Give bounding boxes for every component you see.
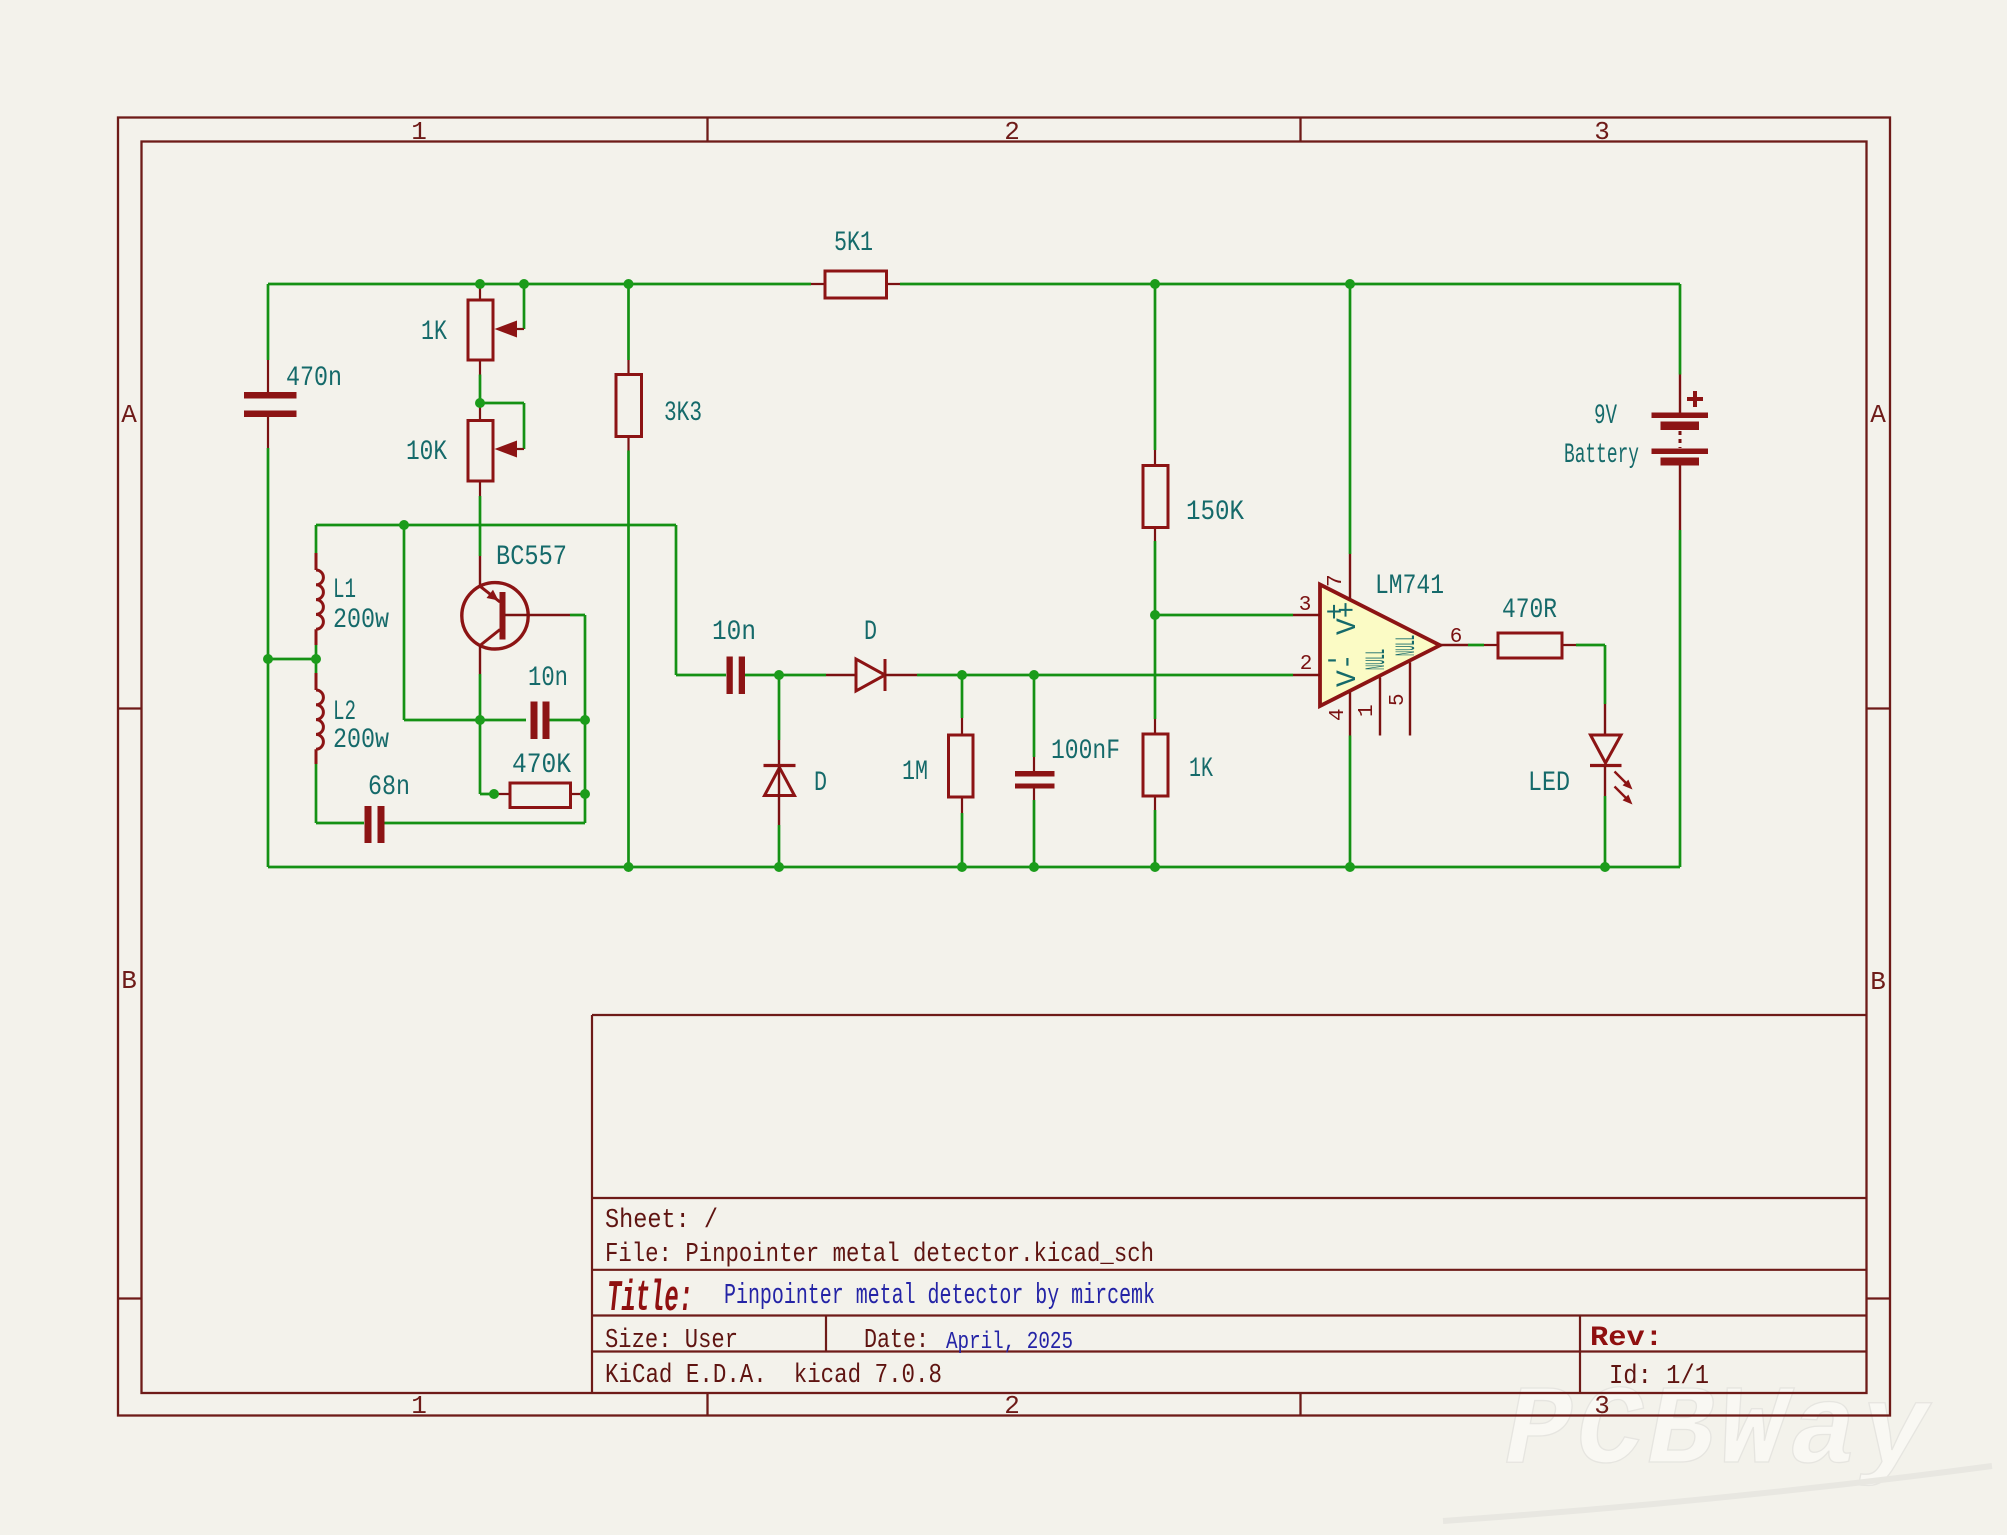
transistor Q1 BC557 (462, 542, 570, 674)
junction bottom rail / LED (1600, 862, 1610, 872)
svg-text:200w: 200w (333, 605, 389, 636)
junction top rail / 1K pot (475, 279, 485, 289)
svg-text:Id: 1/1: Id: 1/1 (1609, 1362, 1709, 1392)
junction bottom rail / 1M (957, 862, 967, 872)
svg-text:File: Pinpointer metal detecto: File: Pinpointer metal detector.kicad_sc… (605, 1240, 1154, 1270)
svg-text:470K: 470K (512, 750, 571, 781)
svg-text:A: A (121, 400, 137, 430)
wire battery column (1679, 284, 1682, 867)
wire 68n row (316, 822, 585, 825)
junction top rail / op-amp pin 7 (1345, 279, 1355, 289)
diode D shunt (764, 740, 828, 825)
title block texts (605, 1206, 1709, 1392)
svg-text:LED: LED (1528, 768, 1570, 799)
svg-text:1: 1 (411, 1391, 427, 1421)
svg-text:10n: 10n (528, 663, 568, 694)
wire top rail (268, 283, 1680, 286)
resistor 1M (902, 718, 973, 813)
svg-text:200w: 200w (333, 725, 389, 756)
svg-text:3K3: 3K3 (664, 398, 702, 429)
svg-text:2: 2 (1300, 653, 1313, 676)
inductor L1 (316, 525, 389, 659)
border zone labels (121, 117, 1886, 1421)
svg-text:Title:: Title: (607, 1274, 693, 1324)
svg-text:68n: 68n (368, 772, 410, 803)
junction collector column / 10n feedback (475, 715, 485, 725)
wire oscillator top (316, 524, 676, 527)
svg-text:1: 1 (1356, 704, 1379, 717)
wire emitter column (479, 496, 482, 556)
svg-text:D: D (864, 617, 877, 648)
op-amp U1 LM741 (1293, 554, 1468, 736)
resistor 150K (1143, 450, 1244, 541)
svg-text:BC557: BC557 (496, 542, 567, 573)
svg-text:3: 3 (1594, 1391, 1610, 1421)
svg-text:6: 6 (1450, 626, 1463, 649)
svg-text:April, 2025: April, 2025 (946, 1329, 1073, 1356)
inductor L2 (316, 659, 389, 823)
resistor 5K1 (811, 228, 900, 298)
svg-text:NULL: NULL (1392, 635, 1423, 656)
svg-text:A: A (1870, 400, 1886, 430)
svg-text:1M: 1M (902, 757, 928, 788)
wire base right column (570, 615, 585, 823)
junction top rail / 1K wiper (519, 279, 529, 289)
resistor 1K right (1143, 719, 1213, 810)
svg-text:B: B (1870, 967, 1886, 997)
junction collector column / 470K left (489, 789, 499, 799)
svg-text:10n: 10n (712, 617, 756, 648)
junction signal row / shunt diode (774, 670, 784, 680)
LED (1528, 704, 1633, 805)
resistor 470K (496, 750, 585, 808)
svg-text:1K: 1K (421, 317, 447, 348)
svg-text:Rev:: Rev: (1590, 1323, 1663, 1354)
capacitor 10n feedback (480, 663, 585, 739)
wire collector column (480, 674, 496, 794)
junction bottom rail / 100nF (1029, 862, 1039, 872)
svg-text:Pinpointer metal detector by m: Pinpointer metal detector by mircemk (724, 1279, 1155, 1312)
battery BT1 9V (1564, 375, 1708, 531)
junction left vertical / center tap (263, 654, 273, 664)
PCBWay watermark (1443, 1369, 1992, 1521)
wire 1M drop (961, 675, 964, 867)
svg-text:Size: User: Size: User (605, 1326, 738, 1356)
svg-text:7: 7 (1325, 574, 1348, 587)
svg-text:V+: V+ (1333, 601, 1364, 635)
wire pin4 (1349, 736, 1352, 868)
junction 1K-10K pots / 10K wiper (475, 398, 485, 408)
capacitor 100nF (1015, 736, 1120, 800)
svg-text:100nF: 100nF (1051, 736, 1120, 767)
svg-text:L2: L2 (333, 697, 356, 728)
wire LED bottom (1604, 796, 1607, 867)
svg-text:4: 4 (1327, 708, 1350, 721)
wire center tap (268, 658, 316, 661)
junction bottom rail / shunt diode (774, 862, 784, 872)
svg-text:Date:: Date: (864, 1326, 929, 1356)
svg-text:9V: 9V (1594, 401, 1617, 432)
junction base column / 470K right (580, 789, 590, 799)
wire base feedback column (404, 525, 480, 720)
junction top rail / 3K3 (624, 279, 634, 289)
svg-text:Sheet: /: Sheet: / (605, 1206, 718, 1236)
svg-text:L1: L1 (333, 575, 356, 606)
resistor 470R (1484, 595, 1576, 658)
svg-text:LM741: LM741 (1375, 571, 1444, 602)
capacitor 68n (365, 772, 411, 843)
junction 150K / op-amp pin 3 (1150, 610, 1160, 620)
junction bottom rail / 3K3 (624, 862, 634, 872)
wire left vertical (267, 284, 270, 867)
wire signal row (676, 525, 1293, 675)
svg-text:2: 2 (1004, 117, 1020, 147)
svg-text:2: 2 (1004, 1391, 1020, 1421)
junction L1-L2 center tap (311, 654, 321, 664)
wire bottom rail (268, 866, 1680, 869)
wire pin7 (1349, 284, 1352, 554)
svg-text:B: B (121, 966, 137, 996)
svg-text:1: 1 (411, 117, 427, 147)
potentiometer 1K (421, 286, 524, 403)
svg-text:5K1: 5K1 (834, 228, 873, 259)
diode D series (826, 617, 917, 691)
junction oscillator top wire / base column (399, 520, 409, 530)
resistor 3K3 (616, 284, 702, 867)
junction top rail / 150K (1150, 279, 1160, 289)
svg-text:3: 3 (1594, 117, 1610, 147)
title block frame (592, 1015, 1867, 1393)
sheet border frame (118, 118, 1890, 1416)
svg-text:470R: 470R (1502, 595, 1557, 626)
svg-text:1K: 1K (1189, 754, 1213, 785)
svg-text:NULL: NULL (1362, 649, 1393, 670)
wire output row (1468, 645, 1605, 704)
svg-text:150K: 150K (1186, 497, 1244, 528)
capacitor 10n coupling (712, 617, 756, 694)
junction signal row / 1M (957, 670, 967, 680)
svg-text:5: 5 (1387, 693, 1410, 706)
wire 100nF drop (1033, 675, 1036, 867)
svg-text:3: 3 (1299, 594, 1312, 617)
svg-text:10K: 10K (406, 437, 447, 468)
svg-text:Battery: Battery (1564, 440, 1639, 471)
wire 150K 1K column (1154, 284, 1157, 867)
svg-text:D: D (814, 768, 827, 799)
junction base column / 10n feedback (580, 715, 590, 725)
wire shunt diode drop (778, 675, 781, 867)
junction bottom rail / 1K (1150, 862, 1160, 872)
wire pin3 row (1155, 614, 1293, 617)
capacitor 470n (244, 360, 342, 448)
svg-text:KiCad E.D.A. kicad 7.0.8: KiCad E.D.A. kicad 7.0.8 (605, 1361, 942, 1391)
junction bottom rail / op-amp pin 4 (1345, 862, 1355, 872)
svg-text:470n: 470n (286, 363, 342, 394)
junction signal row / 100nF (1029, 670, 1039, 680)
potentiometer 10K (406, 403, 524, 496)
svg-text:V-: V- (1333, 653, 1364, 687)
svg-text:PCBWay: PCBWay (1505, 1369, 1932, 1496)
